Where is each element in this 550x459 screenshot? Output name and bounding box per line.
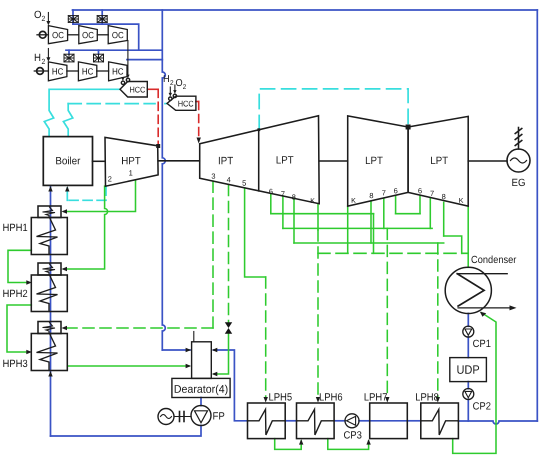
label HPT bbox=[122, 157, 141, 164]
intercooler OC-IC2 bbox=[97, 16, 107, 23]
node: red connection dot at HPT top right corner bbox=[156, 144, 160, 148]
arrow: blue into dearator right bbox=[212, 348, 218, 352]
wire: trunk to LPH6 bbox=[317, 204, 319, 230]
compressor HC1 bbox=[48, 62, 67, 81]
label 2 bbox=[108, 176, 111, 181]
wire: LPH5 condensate to dearator right inlet bbox=[214, 350, 248, 421]
heater HPH1 bbox=[31, 206, 67, 255]
turbine LPT2 double-flow left bbox=[348, 116, 408, 206]
condensate pump CP1 bbox=[463, 326, 474, 337]
wire: drop to HC intercooler 2 bbox=[98, 50, 100, 54]
label 6 bbox=[394, 188, 398, 193]
label HC bbox=[83, 68, 94, 74]
wire: condensate through LPH7 bbox=[370, 420, 408, 422]
wire: shaft OC2-OC3 bbox=[97, 34, 108, 36]
boiler bbox=[43, 137, 92, 186]
label LPT bbox=[366, 157, 383, 164]
wire: HC intercooler return to main riser bbox=[127, 59, 162, 61]
arrow: into HPH3 shell left bbox=[26, 350, 32, 354]
wire: CP2 to condensate main bbox=[467, 399, 469, 421]
wire: condensate main LPH7-CP3 bbox=[359, 420, 370, 422]
wire: shaft HC2-HC3 bbox=[97, 70, 109, 72]
label LPH8 bbox=[416, 393, 438, 400]
dearator vessel bbox=[172, 332, 230, 398]
label 2 bbox=[42, 59, 45, 64]
wire: bus C y243 (8's) bbox=[294, 242, 444, 244]
label H bbox=[35, 54, 40, 61]
wire: riser into dearator left inlet bbox=[162, 349, 190, 351]
label HPH2 bbox=[3, 290, 27, 297]
vacuum deaerator UDP bbox=[450, 358, 487, 382]
arrow: into LPH8 top bbox=[436, 397, 440, 403]
wire: shaft OC1-OC2 bbox=[68, 34, 79, 36]
label CP2 bbox=[473, 402, 490, 409]
wire: HPH1 drain cascade to HPH2 bbox=[8, 250, 31, 282]
label HPH3 bbox=[3, 360, 27, 367]
wire: LPT2 exhaust into condenser bbox=[467, 206, 469, 267]
wire: bus A y213.7 bbox=[271, 213, 374, 215]
compressor OC3 bbox=[108, 26, 127, 44]
compressor HC3 bbox=[109, 62, 127, 81]
arrow: HPH3 drain into dearator left bbox=[186, 364, 192, 368]
wire: FP suction from dearator bbox=[200, 398, 202, 406]
label K bbox=[352, 198, 356, 203]
turbine IPT/LPT1 block bbox=[200, 116, 320, 204]
heater HPH2 bbox=[31, 263, 67, 312]
wire: LPT2 left extraction 7 stub bbox=[383, 198, 385, 228]
label CP1 bbox=[473, 340, 490, 347]
arrow: into LPH7 top bbox=[385, 397, 389, 403]
wire: condensate main LPH6-LPH5 bbox=[285, 420, 296, 422]
label 8 bbox=[292, 194, 296, 199]
wire: HPT extraction 2 to HPH2 (hops over extraction 1 line) bbox=[64, 186, 108, 269]
arrow: into LPH5 top bbox=[264, 397, 268, 403]
arrow: feedwater into HPH3 bottom bbox=[48, 371, 52, 377]
wire: IPT extraction 4 (dashed) through valve to dearator bbox=[228, 185, 230, 323]
wire: top cooling-water header / border top bbox=[73, 9, 538, 11]
arrow: drain into LPH7 bottom bbox=[366, 439, 370, 445]
label CP3 bbox=[344, 431, 362, 438]
label 8 bbox=[370, 193, 374, 198]
label 4 bbox=[227, 177, 231, 182]
arrow: into LPH6 top bbox=[316, 397, 320, 403]
wire: HCC1 outlet to HPT inlet bbox=[147, 88, 158, 90]
motor of OC train bbox=[39, 31, 46, 38]
compressor HC2 bbox=[78, 62, 96, 81]
wire: IPT-LPT divider bbox=[258, 130, 260, 191]
arrow: feedwater into boiler bottom bbox=[48, 186, 52, 192]
motor of HC train bbox=[37, 68, 44, 75]
wire: feedwater riser through HPH heaters to boiler bbox=[50, 187, 52, 437]
wire: boiler to HCC1 water line with break symbol bbox=[44, 89, 120, 136]
wire: LPT2 right extraction 8 stub bbox=[443, 202, 445, 236]
wire: IPT extraction 3 (dashed) to HPH3 bbox=[212, 181, 214, 328]
wire: shaft HC1-HC2 bbox=[67, 70, 79, 72]
arrow: into HPH1 small box bbox=[62, 209, 68, 213]
node: steam dot at LPT2 centre top bbox=[406, 125, 411, 130]
wire: shaft LPT1-LPT2 bbox=[319, 160, 348, 162]
label Boiler bbox=[56, 157, 80, 165]
combustion chamber HCC1 bbox=[120, 78, 147, 97]
wire: LPT2 left exhaust K drop bbox=[347, 206, 349, 253]
wire: LPT1 extraction 8 stub bbox=[293, 198, 295, 243]
wire: trunk to LPH7 bbox=[386, 228, 388, 399]
wire: FP discharge to HPH3 bbox=[51, 425, 202, 436]
O2 inlet arrow to OC1 bbox=[46, 13, 50, 62]
label OC bbox=[112, 32, 123, 38]
label OC bbox=[82, 32, 93, 38]
label 3 bbox=[212, 174, 216, 179]
wire: HCC2 outlet to IPT inlet bbox=[196, 101, 199, 103]
wire: condensate main border-LPH8 with hop over drain bbox=[458, 421, 537, 424]
wire: bus B y228.4 (7's) bbox=[283, 227, 432, 229]
label K bbox=[459, 198, 463, 203]
wire: O2 from OC3 to HCC1 bbox=[123, 41, 128, 80]
wire: steam line IPT to LPT2 centre (dashed n-shape) bbox=[259, 89, 408, 130]
label HPH1 bbox=[3, 224, 27, 231]
wire: LPH8 drain to condenser bbox=[453, 313, 496, 454]
H2 inlet arrow to HC1 bbox=[47, 49, 49, 60]
wire: border right down to condensate main bbox=[536, 10, 538, 421]
arrow: red into IPT corner bbox=[197, 138, 201, 144]
wire: drop to HC intercooler 1 bbox=[68, 50, 70, 54]
label O bbox=[176, 79, 182, 86]
label 8 bbox=[442, 194, 446, 199]
arrow: drain into LPH6 bottom bbox=[299, 439, 303, 445]
wire: HPH3 drain to dearator bbox=[67, 365, 189, 367]
wire: HPH2 drain cascade to HPH3 bbox=[7, 305, 31, 352]
wire: trunk to LPH8 bbox=[437, 243, 439, 400]
wire: HC intercooler header bbox=[66, 49, 162, 51]
label Dearator(4) bbox=[175, 385, 228, 395]
arrow: into HPH3 small box bbox=[62, 326, 68, 330]
heater LPH5 bbox=[248, 403, 286, 439]
label HCC bbox=[130, 87, 145, 93]
wire: shaft LPT2-EG bbox=[468, 160, 507, 162]
arrow: blue into dearator left bbox=[186, 348, 192, 352]
node: steam dot at IPT divider top bbox=[257, 128, 260, 131]
wire: condenser to CP1 bbox=[467, 314, 469, 327]
valve on extraction 4 line bbox=[225, 322, 232, 334]
wire: LPT2 right extraction 6 stub bbox=[419, 196, 421, 214]
wire: LPH5 drain to LPH6 bbox=[275, 439, 302, 450]
wire: OC intercooler return line bbox=[73, 24, 139, 50]
wire: drop to OC intercooler 2 bbox=[101, 10, 103, 24]
wire: LPT1 extraction 7 stub bbox=[282, 196, 284, 228]
generator EG bbox=[507, 149, 530, 172]
wire: UDP to CP2 bbox=[467, 382, 469, 389]
compressor OC2 bbox=[79, 26, 98, 44]
label IPT bbox=[219, 157, 233, 164]
combustion chamber HCC2 bbox=[167, 94, 196, 110]
intercooler HC-IC2 bbox=[94, 54, 104, 62]
label HC bbox=[113, 68, 124, 74]
label HC bbox=[53, 68, 64, 74]
wire: HPT extraction 1 to HPH1 bbox=[64, 180, 136, 212]
arrow: steam return into boiler bottom bbox=[65, 186, 69, 192]
label 2 bbox=[170, 80, 173, 85]
label 5 bbox=[242, 180, 246, 185]
compressor OC1 bbox=[34, 26, 127, 81]
wire: LPT1 extraction 6 stub bbox=[270, 193, 272, 213]
arrow: drain into condenser bbox=[480, 312, 486, 317]
wire: jog 8R to bus D bbox=[444, 236, 462, 253]
wire: CP1 to UDP bbox=[467, 337, 469, 358]
wire: condensate main CP3-LPH6 bbox=[334, 420, 345, 422]
generator EG output symbol bbox=[518, 128, 520, 150]
wire: main cooling riser x162 (with hops) bbox=[162, 10, 165, 350]
label LPH6 bbox=[320, 393, 342, 400]
wire: HPT exhaust to boiler return (dashed) bbox=[67, 186, 106, 200]
turbine LPT2 double-flow right bbox=[408, 116, 468, 206]
label O bbox=[35, 11, 42, 18]
label HCC bbox=[178, 101, 193, 107]
heater LPH8 bbox=[421, 403, 459, 439]
wire: boiler to HPT steam line bbox=[93, 160, 106, 162]
heater HPH3 bbox=[31, 322, 67, 371]
condensate pump CP2 bbox=[463, 389, 474, 400]
label EG bbox=[512, 179, 525, 186]
turbine HPT bbox=[105, 137, 158, 186]
intercooler OC-IC1 bbox=[64, 16, 107, 62]
label 6 bbox=[418, 188, 422, 193]
feed pump FP with motor bbox=[158, 406, 211, 426]
heater LPH7 (empty shell) bbox=[370, 403, 408, 439]
condenser bbox=[445, 267, 516, 313]
wire: LPH6 drain to LPH7 bbox=[328, 439, 369, 450]
label UDP bbox=[457, 365, 479, 374]
label LPH5 bbox=[269, 393, 291, 400]
arrow: extraction 4 into dearator right bbox=[212, 372, 218, 376]
label Condenser bbox=[472, 256, 517, 264]
label 6 bbox=[269, 189, 273, 194]
wire: H2 supply arrow to HCC2 bbox=[170, 85, 175, 95]
label LPT bbox=[431, 157, 448, 164]
wire: LPT2 left extraction 8 stub bbox=[370, 201, 372, 243]
wire: bridge 6-6 between LPT2 halves bbox=[396, 213, 420, 215]
wire: bus A drop to bus D bbox=[373, 214, 375, 254]
label 2 bbox=[42, 16, 45, 21]
label FP bbox=[213, 412, 224, 419]
condensate pump CP3 bbox=[345, 414, 359, 428]
label 7 bbox=[430, 191, 433, 196]
wire: H2 from HC3 to HCC1 bbox=[122, 78, 124, 80]
wire: condensate main LPH8-LPH7 bbox=[407, 420, 421, 422]
arrow: into HPH2 shell left bbox=[26, 280, 32, 284]
wire: boiler to HCC2 water line with break symbol (dashed to tip) bbox=[63, 104, 72, 137]
wire: drop to OC intercooler 1 bbox=[72, 10, 74, 24]
wire: LPT2 right extraction 7 stub bbox=[429, 199, 431, 229]
label 7 bbox=[382, 190, 385, 195]
wire: shaft HPT-IPT bbox=[158, 160, 200, 162]
label LPH7 bbox=[365, 393, 387, 400]
wire: LPT2 left extraction 6 stub bbox=[395, 196, 397, 214]
label 1 bbox=[129, 170, 132, 175]
wire: bus D y253.3 to condenser line (dashed) bbox=[318, 252, 468, 254]
label 2 bbox=[183, 84, 186, 89]
intercooler HC-IC1 bbox=[64, 54, 74, 62]
label 7 bbox=[281, 191, 284, 196]
arrow: into HPH2 small box bbox=[62, 267, 68, 271]
label LPT bbox=[277, 156, 294, 163]
heater LPH6 bbox=[297, 403, 335, 439]
label H bbox=[164, 75, 169, 82]
wire: IPT extraction 5 to LPH5 bbox=[245, 188, 266, 277]
wire: O2 supply arrow to HCC2 bbox=[174, 85, 176, 92]
label OC bbox=[52, 32, 63, 38]
label K bbox=[311, 198, 315, 203]
